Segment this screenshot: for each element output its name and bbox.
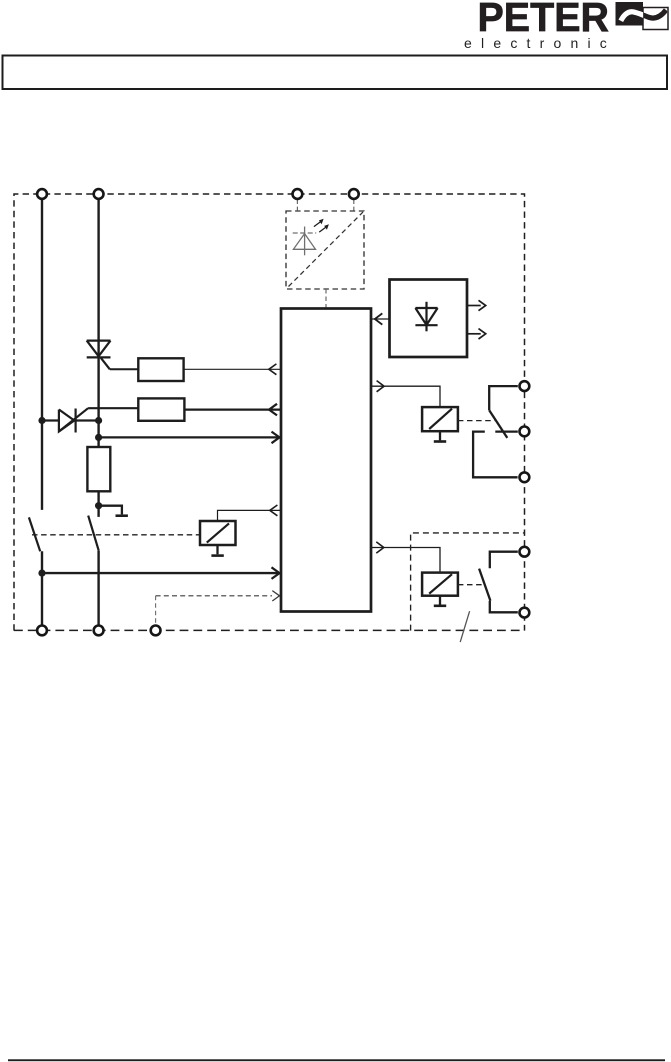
optocoupler diagonal xyxy=(289,212,364,287)
wire L1 phase line A vertical x=42 xyxy=(41,200,43,510)
dashed link K1 to contact xyxy=(458,420,495,422)
LED emission arrows xyxy=(314,221,326,232)
node B sense xyxy=(95,434,102,441)
arrow into block at 437 xyxy=(272,432,280,444)
terminal circles xyxy=(37,189,529,635)
wire V2 gate to R2 xyxy=(88,407,138,409)
wire block to relay K2 xyxy=(371,548,440,573)
wire sense line B to block xyxy=(99,436,279,438)
resistor R3 vertical xyxy=(87,447,110,491)
resistor R2 xyxy=(138,398,184,420)
ground of K1 xyxy=(439,431,441,440)
resistor R1 xyxy=(138,358,183,381)
ground of R3 xyxy=(99,506,122,515)
wire supply line to block y=573 xyxy=(42,572,279,574)
node B-R3 ground xyxy=(95,502,102,509)
terminal K2 a xyxy=(520,547,530,557)
wire block to power block xyxy=(371,318,390,320)
logo icon wave black part xyxy=(621,10,666,21)
dashed mechanical link S1 xyxy=(32,534,200,536)
output arrow top of power block xyxy=(467,305,481,307)
arrow on R2 line xyxy=(269,404,277,416)
arrow into block at 573 xyxy=(272,567,280,579)
wire block to K3 xyxy=(218,510,281,521)
contact S1a arm xyxy=(29,517,40,551)
LED D1 inside optocoupler xyxy=(293,227,317,256)
relay K2 contact leads xyxy=(479,552,518,613)
wire R1 to block xyxy=(184,368,280,370)
contact S1b arm xyxy=(88,516,99,551)
main control block xyxy=(281,309,371,612)
arrow into R1 line xyxy=(269,364,277,375)
svg-text:PETER: PETER xyxy=(478,0,610,40)
arrow on K1 wire xyxy=(377,381,385,392)
terminal X3 bottom xyxy=(151,626,161,636)
footer rule xyxy=(8,1059,665,1061)
outer dashed enclosure border bottom xyxy=(14,629,525,631)
optocoupler U1 dashed box xyxy=(286,211,364,289)
node A supply xyxy=(38,570,45,577)
inner dashed box around K2 xyxy=(411,533,525,631)
dashed link K2 to contact xyxy=(458,584,484,586)
ground of K2 xyxy=(439,596,441,605)
thyristor symbol in power block xyxy=(415,302,437,332)
dashed stub U1 to block xyxy=(325,289,327,308)
relay coil K2 xyxy=(422,573,458,596)
terminal A2 xyxy=(349,189,359,199)
thyristor V2 horizontal between A and B xyxy=(42,408,99,432)
terminal L2 top xyxy=(94,189,104,199)
terminal K1 NC xyxy=(520,472,530,482)
dashed stub terminal A2 to U1 xyxy=(353,200,355,211)
thyristor V1 on line B xyxy=(87,341,111,370)
power block (thyristor output) xyxy=(390,280,468,358)
arrow on K2 wire xyxy=(376,542,384,553)
wire V1 gate to R1 xyxy=(110,368,139,370)
dashed stub terminal A1 to U1 xyxy=(296,200,298,211)
wire L2 lower segment xyxy=(97,491,99,517)
terminal A1 xyxy=(293,189,303,199)
wire block to relay K1 xyxy=(371,386,440,407)
terminal L1 top xyxy=(37,189,47,199)
outer dashed enclosure border xyxy=(14,194,525,631)
terminal K1 NO xyxy=(520,381,530,391)
header box xyxy=(3,56,668,90)
relay coil K1 xyxy=(422,407,458,431)
logo icon black square xyxy=(616,2,644,26)
wire L2 bottom segment xyxy=(97,551,99,626)
dashed stub terminal X3 xyxy=(155,596,157,626)
logo icon outlined square xyxy=(643,8,668,30)
wire R2 to block xyxy=(184,408,280,410)
junction dots xyxy=(38,417,102,577)
relay coil K3 xyxy=(200,521,236,545)
terminal K1 COM xyxy=(520,427,530,437)
wire L2 phase line B vertical x=98.6 xyxy=(97,200,99,448)
terminal X1 bottom xyxy=(37,626,47,636)
terminal X2 bottom xyxy=(94,626,104,636)
wire L1 lower segment xyxy=(41,551,43,625)
node B-V2 xyxy=(95,417,102,424)
slash marker xyxy=(460,611,469,642)
dashed control wire from terminal X3 to block xyxy=(156,595,272,597)
output arrow bottom of power block xyxy=(467,333,481,335)
arrow into block at 319 xyxy=(375,313,383,324)
terminal K2 b xyxy=(520,608,530,618)
node A-V2 xyxy=(38,417,45,424)
relay K1 contact leads xyxy=(473,386,518,477)
arrow on K3 wire xyxy=(270,505,278,516)
ground of K3 xyxy=(216,545,218,554)
